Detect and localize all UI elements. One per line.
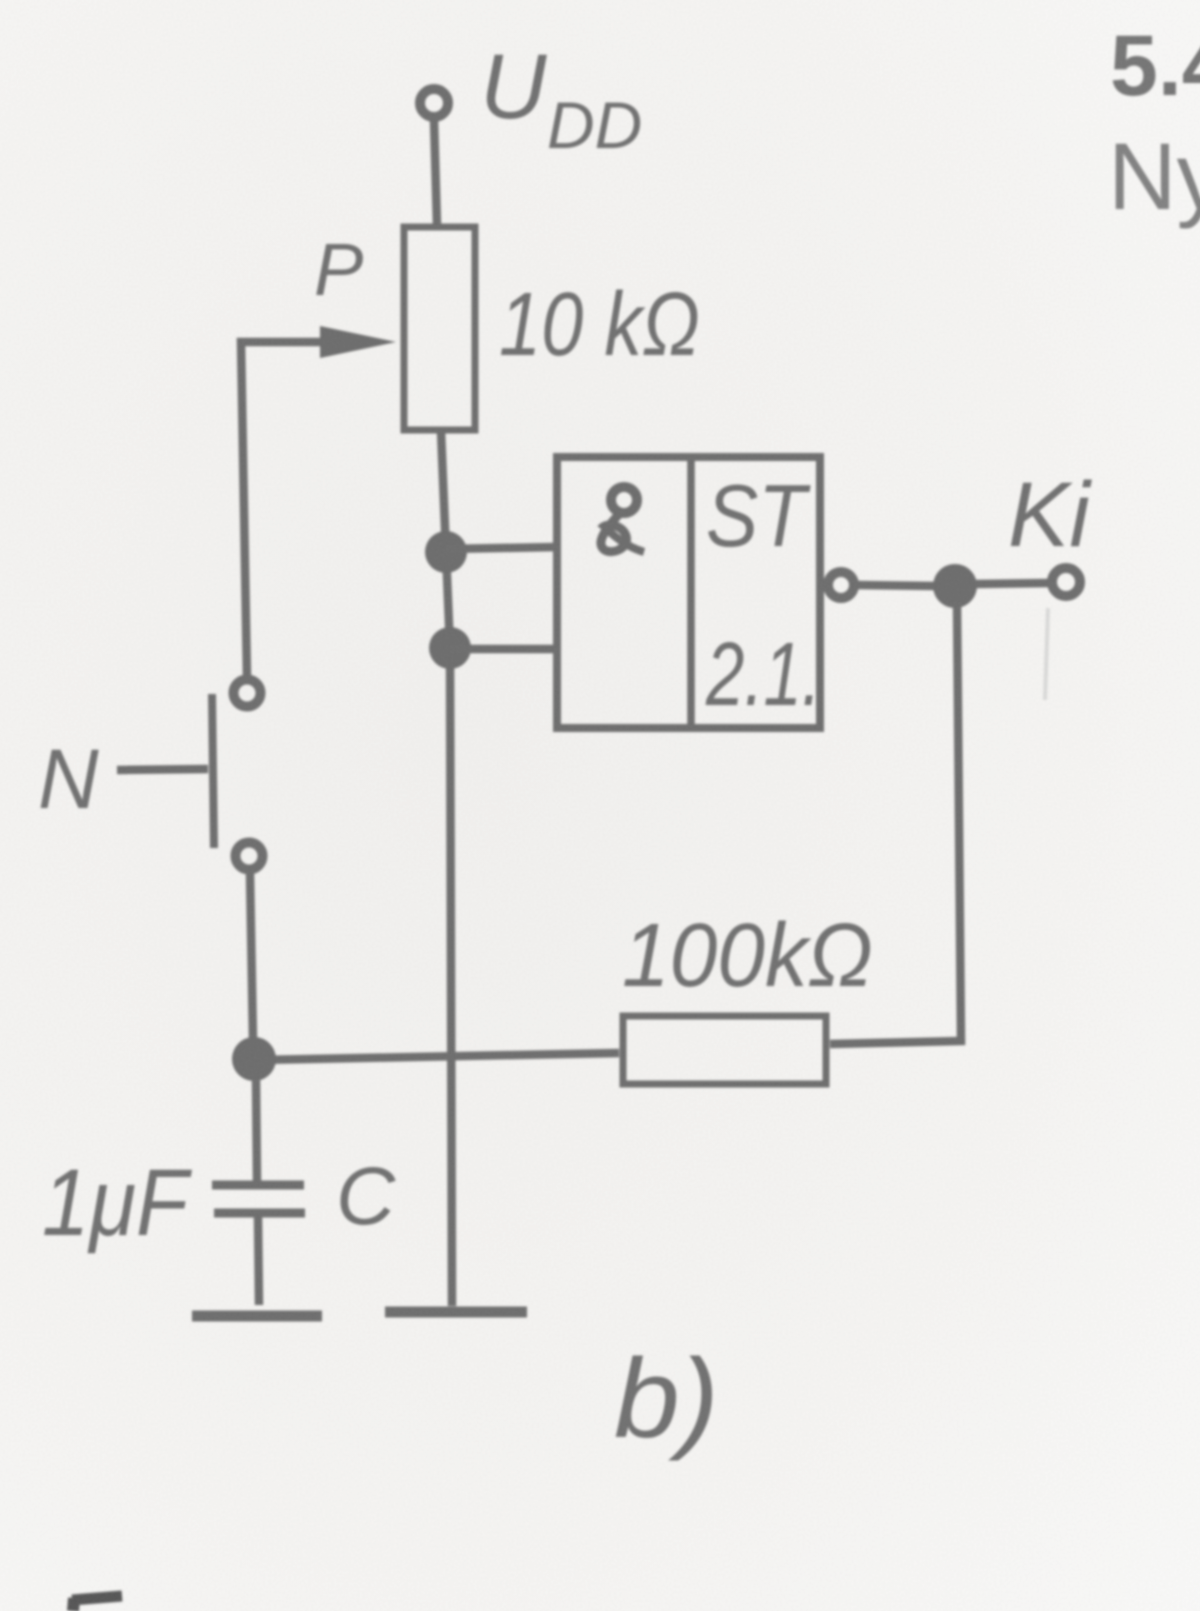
switch N actuator bar	[212, 694, 214, 848]
gate output bubble	[828, 572, 854, 598]
wire capacitor to ground	[258, 1217, 259, 1305]
capacitor C bottom plate	[214, 1209, 305, 1218]
wiper arrow wire P	[241, 342, 330, 677]
wire resistor R2 to node D	[258, 1053, 619, 1060]
wire node A to gate input 1	[446, 547, 557, 549]
wire node D to capacitor	[256, 1078, 257, 1181]
wire node D up to switch	[250, 874, 253, 1040]
ground right	[385, 1307, 527, 1318]
switch N top contact	[234, 680, 261, 707]
node D junction dot	[232, 1037, 276, 1081]
switch N lead wire	[117, 769, 208, 770]
paper scratch mark	[1045, 608, 1048, 700]
wire UDD to potentiometer	[434, 120, 437, 225]
gate box divider	[687, 458, 695, 727]
wire node C to terminal Ki	[975, 583, 1049, 584]
capacitor C top plate	[212, 1181, 304, 1190]
wire bubble to node C	[857, 585, 936, 586]
wire pot bottom to node A down to ground	[441, 431, 452, 1306]
terminal Ki	[1052, 568, 1080, 596]
switch N bottom contact	[236, 843, 263, 870]
resistor R2 100k	[623, 1016, 826, 1084]
node C junction dot	[933, 564, 977, 608]
resistor R1 potentiometer body 10k	[404, 227, 475, 430]
wire node C down to resistor R2	[830, 602, 961, 1044]
wire node B to gate input 2	[450, 645, 557, 654]
wiper arrowhead	[320, 326, 396, 358]
terminal UDD	[420, 89, 448, 117]
bottom left cut glyph	[72, 1596, 122, 1611]
op-amp U1 gate box	[557, 457, 820, 728]
ground left	[192, 1311, 322, 1322]
node A junction dot	[425, 531, 467, 573]
node B junction dot	[429, 627, 471, 669]
gate symbol ampersand	[601, 487, 644, 552]
